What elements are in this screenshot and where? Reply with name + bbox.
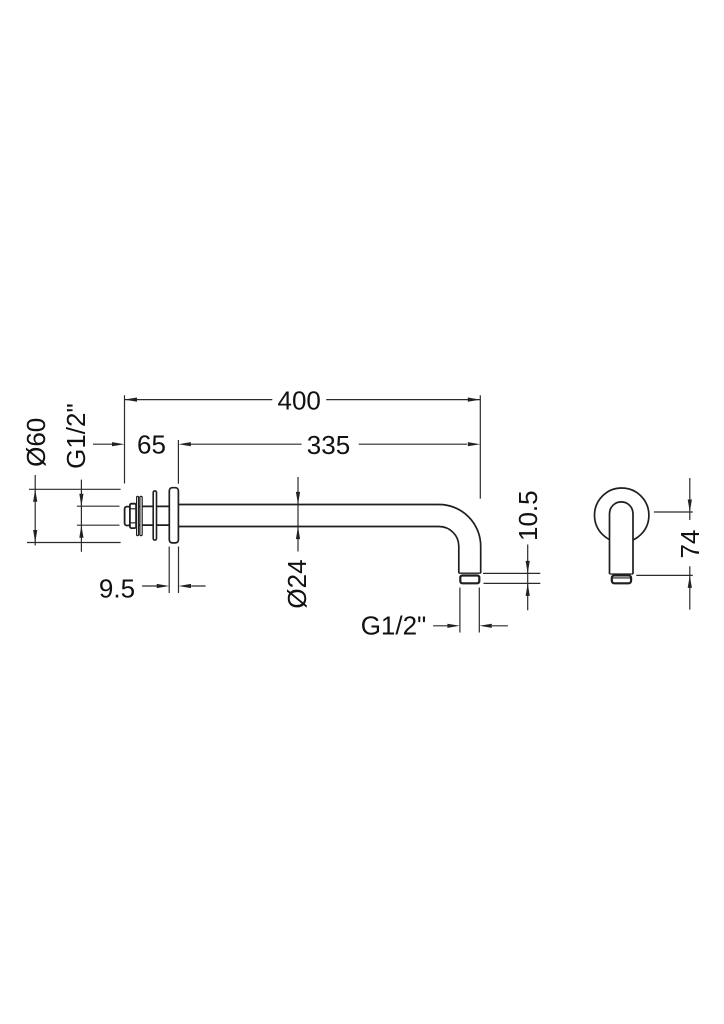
dim line dia60 [27,475,121,546]
nut end cap [125,507,131,526]
svg-text:10.5: 10.5 [513,490,543,541]
extension line flange face [177,440,179,484]
ext lines 9.5 [169,547,178,594]
hex nut [130,504,136,528]
tube front view [610,502,634,574]
svg-text:335: 335 [307,430,350,460]
flange side view [169,488,178,543]
wall plate [153,491,156,540]
flange front view circle [595,488,649,542]
extension line wall face [124,395,126,483]
nozzle side view [460,576,479,584]
arrowheads [125,398,138,402]
svg-text:G1/2": G1/2" [61,403,91,469]
thread pipe [131,506,169,525]
dim line G12 left [77,480,120,552]
svg-text:G1/2": G1/2" [361,611,427,641]
svg-text:400: 400 [278,386,321,416]
dim line dia24 [297,477,299,552]
tube front end edge [610,573,634,575]
hex nut facet lines [130,509,136,523]
svg-text:Ø60: Ø60 [21,418,51,467]
ext lines G12 bottom [460,588,479,633]
svg-text:Ø24: Ø24 [282,559,312,608]
dim line 10.5 [483,545,540,611]
extension line arm end [479,395,481,498]
svg-text:9.5: 9.5 [99,573,135,603]
dim line 74 [636,478,693,610]
arm tube side view [178,505,480,574]
arm tube end edge [459,572,481,574]
svg-text:74: 74 [675,530,705,559]
nozzle front view [612,575,631,583]
washer 2 [140,496,142,535]
dimension 400 line [125,399,481,401]
washer 1 [137,496,139,535]
svg-text:65: 65 [137,430,166,460]
nozzle front seam [613,577,631,579]
dimension 65-335 line [93,444,508,626]
